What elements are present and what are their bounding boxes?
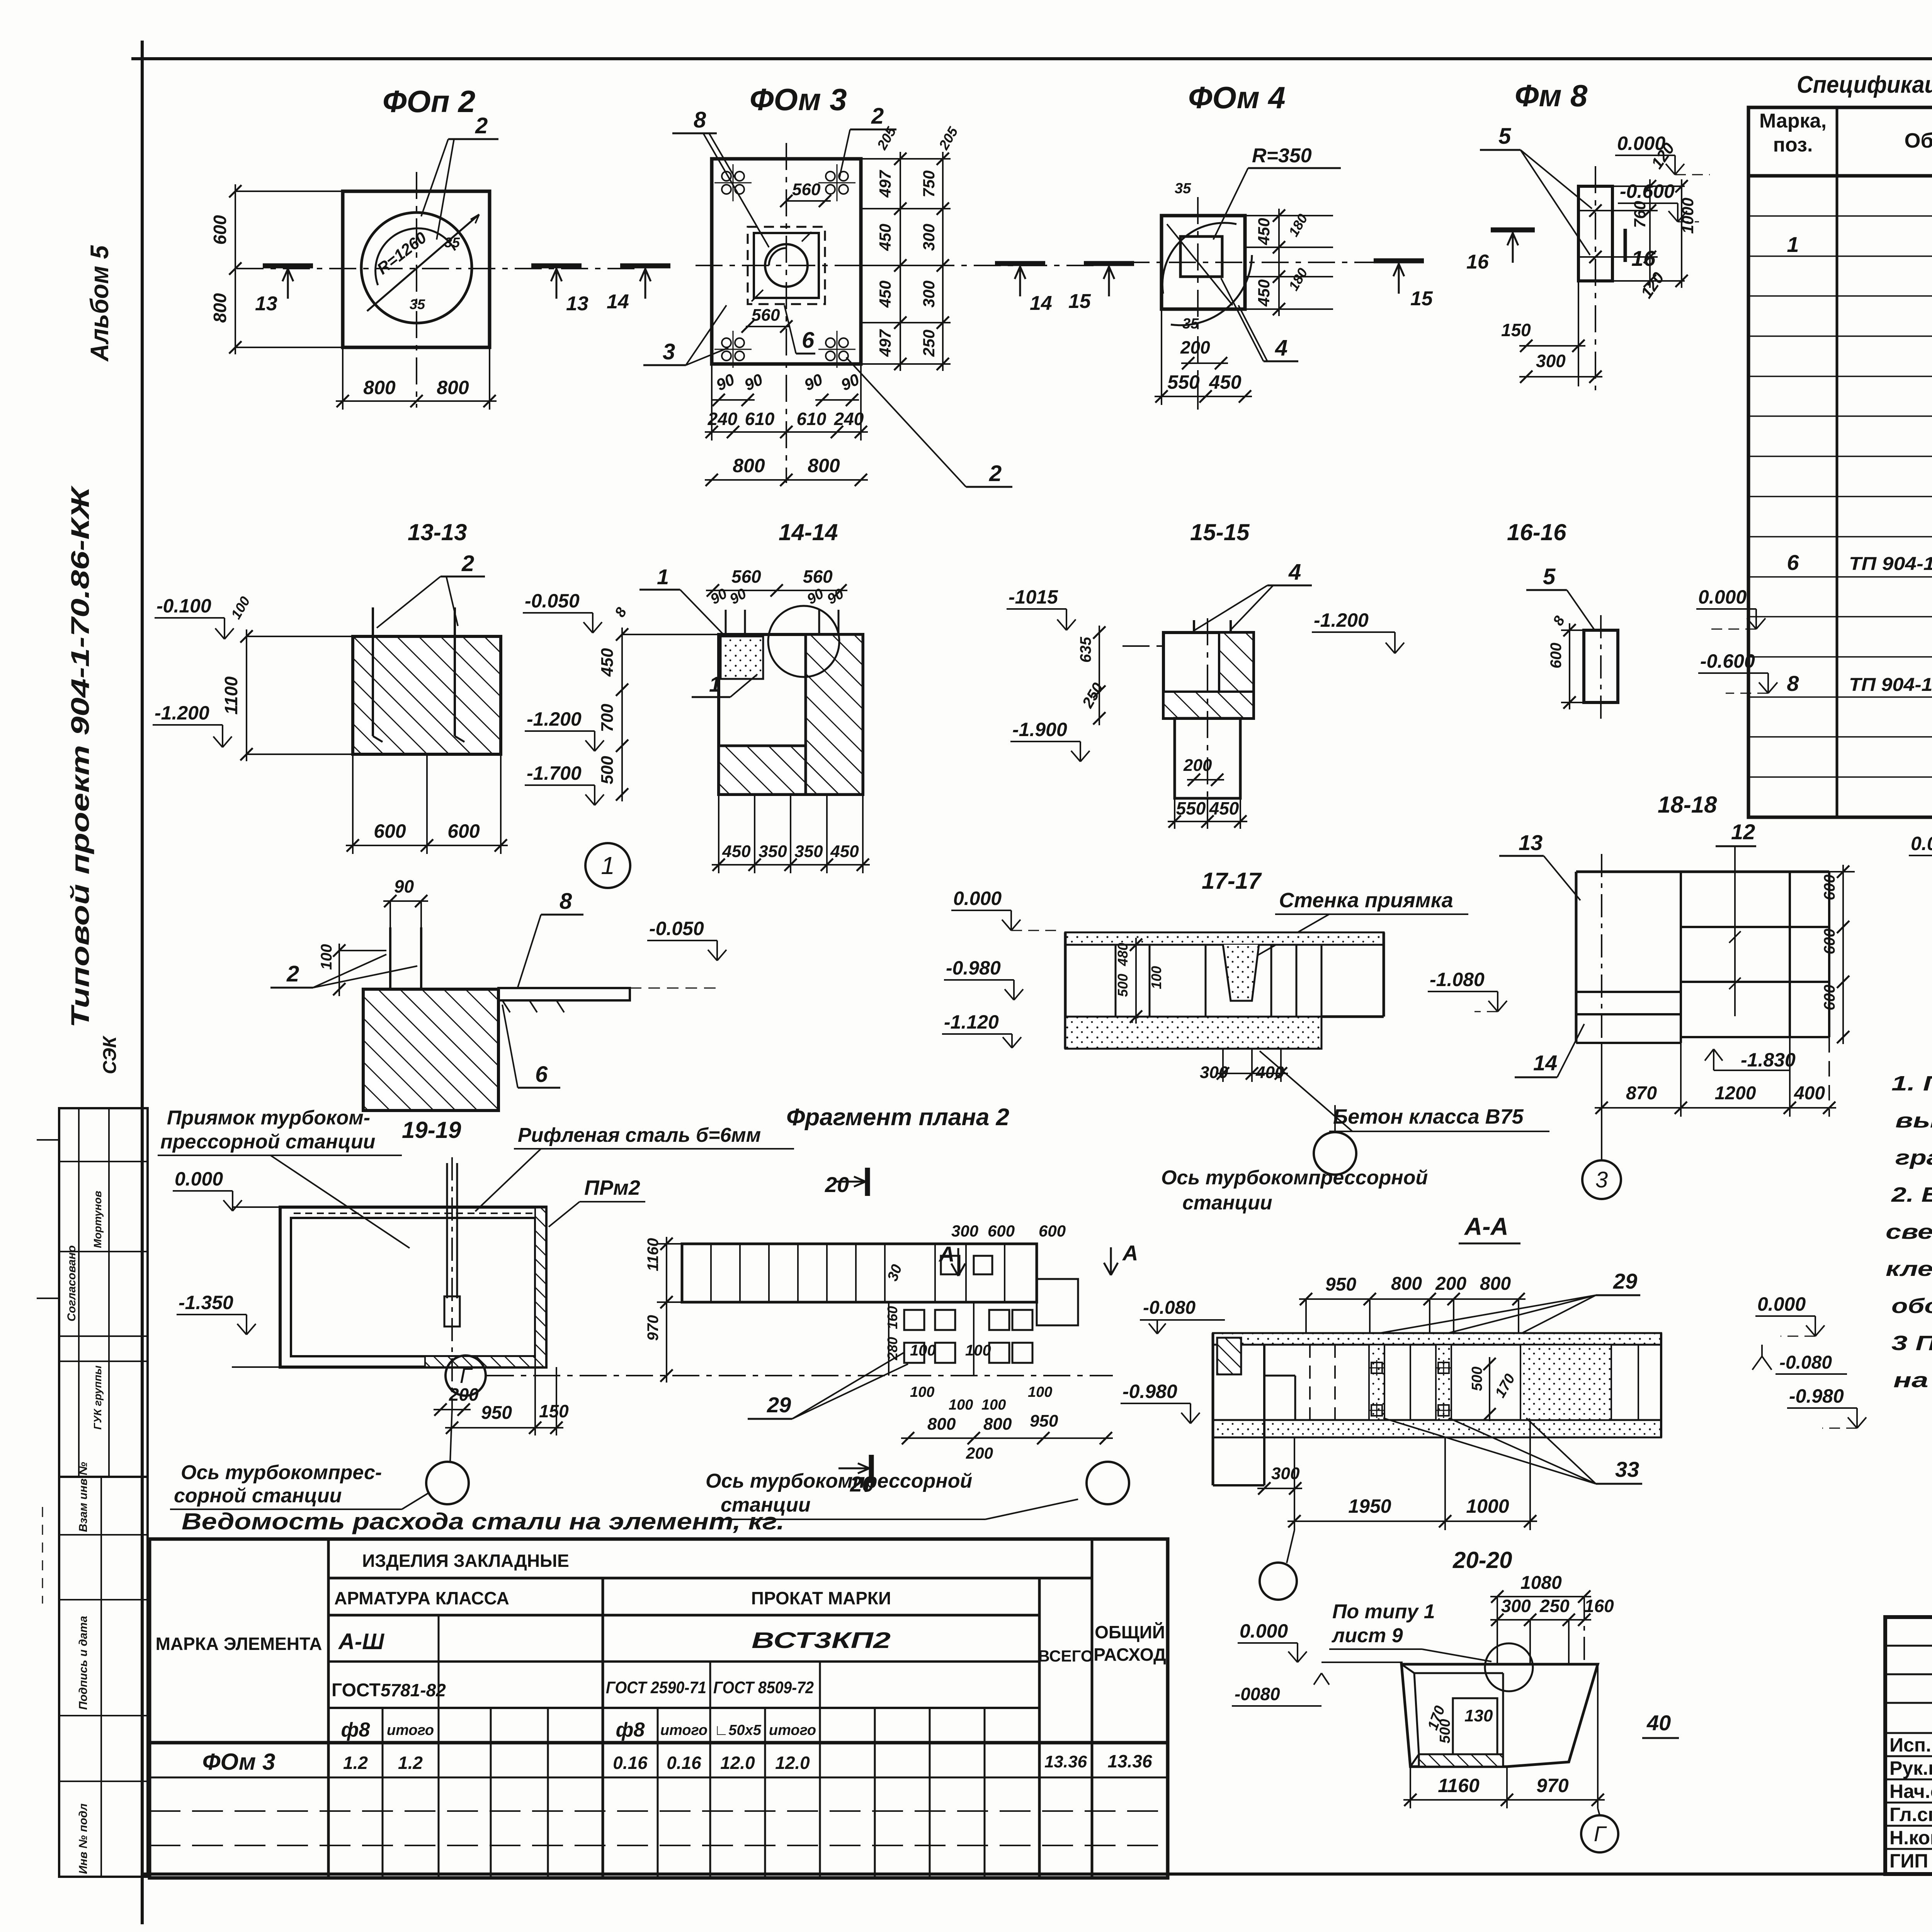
svg-text:Бетон класса В75: Бетон класса В75: [1333, 1105, 1524, 1128]
svg-text:450: 450: [1209, 371, 1242, 393]
section 17-17 inner rotated dims: [1135, 938, 1137, 1024]
svg-text:-0.100: -0.100: [156, 595, 211, 617]
svg-text:Н.конт: Н.конт: [1889, 1827, 1932, 1849]
fragment step right end: [1037, 1279, 1078, 1325]
svg-text:1950: 1950: [1348, 1495, 1391, 1517]
svg-text:800: 800: [808, 455, 840, 476]
svg-text:1160: 1160: [645, 1238, 662, 1271]
specification table grid: [1748, 107, 1932, 817]
svg-text:ГОСТ: ГОСТ: [332, 1680, 381, 1701]
plan FOm3 bolt cluster top-left: [722, 172, 731, 181]
svg-text:-1.200: -1.200: [155, 702, 209, 724]
svg-text:20-20: 20-20: [1452, 1547, 1512, 1573]
svg-text:1.2: 1.2: [343, 1753, 368, 1773]
svg-text:Г: Г: [1594, 1821, 1607, 1846]
svg-text:12: 12: [1731, 820, 1755, 844]
plan FOm4 right dims: [1245, 215, 1333, 216]
section A-A inner verticals: [1309, 1345, 1311, 1420]
svg-text:А-Ш: А-Ш: [338, 1629, 384, 1654]
svg-text:-0.080: -0.080: [1779, 1352, 1832, 1373]
section 14-14 bolts: [725, 610, 727, 665]
svg-text:35: 35: [444, 235, 460, 250]
svg-text:1: 1: [601, 852, 615, 879]
svg-text:400: 400: [1794, 1083, 1825, 1104]
plan FOp2 bottom dimension: [342, 347, 344, 410]
svg-text:16-16: 16-16: [1507, 519, 1566, 545]
svg-text:14-14: 14-14: [779, 519, 838, 545]
section A-A left wall hatch: [1217, 1338, 1241, 1374]
svg-text:4: 4: [1288, 560, 1301, 585]
svg-text:-1.200: -1.200: [1314, 609, 1369, 631]
svg-text:40: 40: [1646, 1711, 1671, 1735]
svg-text:4: 4: [1275, 335, 1287, 361]
fragment axis line Г: [487, 1375, 1113, 1376]
svg-text:16: 16: [1631, 246, 1656, 270]
plan FOp2 circle: [361, 213, 472, 323]
svg-text:А-А: А-А: [1464, 1213, 1509, 1240]
svg-text:5: 5: [1498, 124, 1511, 149]
svg-text:сорной станции: сорной станции: [174, 1485, 342, 1507]
svg-text:0.000: 0.000: [1698, 586, 1747, 608]
section 15-15 bottom dims: [1174, 798, 1175, 829]
svg-text:2: 2: [989, 461, 1002, 486]
svg-text:130: 130: [1464, 1706, 1493, 1725]
plan FOp2 left dimension: [235, 190, 343, 192]
svg-text:СЭК: СЭК: [100, 1035, 120, 1074]
svg-text:20: 20: [825, 1172, 849, 1197]
svg-text:-0.050: -0.050: [525, 590, 580, 612]
svg-text:250: 250: [920, 330, 938, 357]
svg-text:800: 800: [1480, 1274, 1511, 1294]
svg-text:2: 2: [461, 551, 474, 576]
svg-text:-1.120: -1.120: [944, 1011, 999, 1033]
svg-text:АРМАТУРА КЛАССА: АРМАТУРА КЛАССА: [334, 1588, 509, 1608]
svg-text:R=350: R=350: [1252, 145, 1312, 167]
svg-text:ФОм 4: ФОм 4: [1188, 80, 1286, 115]
svg-text:300: 300: [1271, 1464, 1300, 1483]
svg-text:Типовой проект 904-1-70.86: Типовой проект 904-1-70.86-КЖ: [66, 485, 94, 1028]
svg-text:1: 1: [1787, 232, 1799, 257]
approval stamp block (sogласовано): [59, 1108, 148, 1477]
svg-text:497: 497: [876, 170, 894, 198]
plan Fm8 cut mark 16: [1491, 228, 1535, 233]
section 13-13 vertical dim 1100: [246, 629, 247, 761]
svg-text:Согласовано: Согласовано: [65, 1245, 78, 1321]
svg-text:100: 100: [1148, 966, 1164, 989]
svg-text:33: 33: [1615, 1457, 1639, 1481]
svg-text:8: 8: [1787, 671, 1799, 696]
svg-text:500: 500: [598, 756, 617, 784]
svg-text:450: 450: [598, 648, 617, 677]
svg-text:ГОСТ 2590-71: ГОСТ 2590-71: [606, 1678, 706, 1697]
svg-text:350: 350: [759, 842, 787, 861]
svg-text:35: 35: [1175, 180, 1191, 197]
svg-text:2. Болты тип 5 установить: 2. Болты тип 5 установить в готовые фунд…: [1891, 1183, 1932, 1206]
plan FOm3 centerlines: [696, 265, 1097, 266]
svg-text:3: 3: [663, 339, 675, 364]
svg-text:2: 2: [286, 961, 299, 986]
svg-text:3 Привязку фундаментов к: 3 Привязку фундаментов к разбивочным ося…: [1891, 1332, 1932, 1355]
plan FOm3 right dimension columns: [861, 158, 951, 160]
fragment axis balloon right: [1087, 1462, 1129, 1504]
svg-text:По типу 1: По типу 1: [1332, 1600, 1435, 1623]
svg-text:Приямок турбоком-: Приямок турбоком-: [167, 1107, 370, 1129]
svg-text:12.0: 12.0: [775, 1753, 810, 1773]
svg-text:0.000: 0.000: [1911, 833, 1932, 854]
svg-text:500: 500: [1115, 974, 1131, 997]
svg-text:1. Подготовку основания п: 1. Подготовку основания под монолитные ф…: [1891, 1072, 1932, 1095]
svg-text:-0.600: -0.600: [1620, 180, 1675, 202]
svg-text:800: 800: [1391, 1274, 1422, 1294]
axis balloon (19-19): [426, 1462, 469, 1504]
svg-text:13.36: 13.36: [1044, 1752, 1087, 1771]
svg-text:600: 600: [210, 215, 230, 245]
svg-text:600: 600: [988, 1222, 1015, 1240]
svg-text:0.000: 0.000: [1617, 133, 1665, 154]
section A-A bottom dims: [1294, 1437, 1295, 1530]
svg-text:-1.700: -1.700: [527, 762, 582, 784]
svg-text:ф8: ф8: [341, 1719, 370, 1741]
svg-text:450: 450: [1255, 279, 1273, 307]
svg-text:15: 15: [1068, 290, 1091, 313]
svg-text:прессорной станции: прессорной станции: [160, 1131, 375, 1153]
svg-text:ГОСТ 8509-72: ГОСТ 8509-72: [713, 1678, 814, 1697]
axis balloon below 17-17: [1314, 1132, 1356, 1175]
svg-text:450: 450: [722, 842, 751, 861]
svg-text:450: 450: [876, 224, 894, 251]
svg-text:800: 800: [363, 377, 396, 398]
section 14-14 bottom dims: [718, 794, 719, 873]
section A-A slab body: [1213, 1333, 1661, 1345]
svg-text:-0.980: -0.980: [1789, 1385, 1844, 1407]
svg-text:Взам инв №: Взам инв №: [77, 1462, 90, 1532]
svg-text:13: 13: [255, 293, 277, 315]
svg-text:19-19: 19-19: [402, 1117, 461, 1143]
steel consumption table: [150, 1539, 1168, 1878]
plan Fm8 right dims: [1612, 185, 1685, 187]
svg-text:6: 6: [1787, 550, 1799, 575]
svg-text:950: 950: [1030, 1412, 1058, 1430]
svg-text:610: 610: [797, 409, 827, 429]
plan FOp2 centerlines: [236, 268, 641, 269]
svg-text:1080: 1080: [1520, 1573, 1562, 1593]
svg-text:14: 14: [607, 291, 629, 313]
svg-text:635: 635: [1077, 637, 1094, 663]
section cut mark 15 right of FOm4: [1374, 259, 1424, 264]
svg-text:35: 35: [410, 296, 425, 312]
svg-text:500: 500: [1469, 1367, 1485, 1391]
plan 19-19 top steel strip: [294, 1213, 533, 1214]
section 20-20 axis balloon Г: [1598, 1808, 1600, 1815]
svg-text:ГИП: ГИП: [1889, 1850, 1928, 1872]
svg-text:итого: итого: [769, 1722, 816, 1738]
section 13-13 anchor bolts: [372, 607, 374, 736]
node balloon 1: [585, 843, 630, 888]
svg-text:100: 100: [910, 1342, 936, 1359]
svg-text:15: 15: [1410, 287, 1433, 310]
section 15-15 body: [1163, 633, 1253, 718]
section A-A bolts: [1371, 1362, 1382, 1373]
svg-text:800: 800: [437, 377, 469, 398]
svg-text:Обозначение: Обозначение: [1904, 129, 1932, 152]
svg-text:800: 800: [927, 1415, 956, 1434]
svg-text:МАРКА ЭЛЕМЕНТА: МАРКА ЭЛЕМЕНТА: [156, 1634, 322, 1654]
svg-text:300: 300: [951, 1222, 978, 1240]
section 15-15 left dims: [1099, 626, 1100, 725]
svg-text:РАСХОД: РАСХОД: [1094, 1645, 1166, 1665]
svg-text:600: 600: [1821, 929, 1838, 954]
svg-text:600: 600: [1548, 643, 1565, 668]
svg-text:А: А: [938, 1242, 954, 1266]
svg-text:-1.200: -1.200: [527, 708, 582, 730]
svg-text:-0.050: -0.050: [649, 918, 704, 939]
svg-text:300: 300: [920, 281, 938, 308]
svg-text:13: 13: [566, 293, 588, 315]
svg-text:Исп.: Исп.: [1889, 1734, 1931, 1756]
svg-text:0.000: 0.000: [1757, 1293, 1806, 1315]
svg-text:450: 450: [876, 281, 894, 308]
title block (stamp): [1885, 1617, 1932, 1874]
svg-text:5: 5: [1543, 564, 1556, 589]
svg-text:700: 700: [598, 704, 617, 732]
svg-text:оборудования фундаментными: оборудования фундаментными болтами СН 47…: [1891, 1294, 1932, 1318]
section 17-17 inner walls: [1115, 945, 1117, 1017]
svg-text:Ось турбокомпрессорной: Ось турбокомпрессорной: [1161, 1167, 1428, 1189]
svg-text:Подпись и дата: Подпись и дата: [77, 1616, 90, 1710]
svg-text:100: 100: [1028, 1384, 1052, 1400]
svg-text:выполнять путем втрамбован: выполнять путем втрамбования в грунт щеб…: [1895, 1109, 1932, 1132]
svg-text:15-15: 15-15: [1190, 519, 1250, 545]
standard inventory stamp block: [59, 1477, 148, 1877]
svg-text:480: 480: [1115, 943, 1131, 966]
plan FOm3 bottom dims 240 610 610 240: [711, 364, 713, 440]
svg-text:200: 200: [966, 1444, 993, 1462]
svg-text:560: 560: [803, 566, 833, 587]
plan FOm3 bottom dims 800 800: [705, 479, 868, 481]
svg-text:1: 1: [709, 672, 721, 696]
svg-text:Рифленая сталь б=6мм: Рифленая сталь б=6мм: [518, 1124, 761, 1146]
svg-text:сверленные скважины, закре: сверленные скважины, закрепив с помощью …: [1886, 1220, 1932, 1243]
svg-text:12.0: 12.0: [720, 1753, 755, 1773]
svg-text:0.16: 0.16: [667, 1753, 701, 1773]
svg-text:13-13: 13-13: [408, 519, 467, 545]
svg-text:Спецификация к фундаментам: Спецификация к фундаментам под оборудова…: [1797, 71, 1932, 98]
svg-text:250: 250: [1539, 1596, 1570, 1616]
svg-text:800: 800: [733, 455, 765, 476]
section 20-20 pit body: [1401, 1664, 1598, 1767]
plan FOm4 centerlines: [1122, 262, 1406, 263]
svg-text:поз.: поз.: [1773, 134, 1813, 156]
plan FOm3 bottom dims 90: [712, 399, 755, 401]
node 1 detail embedded plate: [498, 988, 630, 1000]
section 20-20 detail circle: [1485, 1643, 1533, 1691]
plan FOm4 bottom dims: [1161, 309, 1162, 405]
svg-text:Г: Г: [460, 1363, 473, 1388]
node 1 detail vertical dim 100: [338, 944, 340, 996]
section cut marks 13 14 right of FOp2: [531, 264, 582, 269]
plan FOm4 body: [1162, 216, 1245, 309]
svg-text:ФОп 2: ФОп 2: [383, 84, 475, 119]
plan FOm3 bolt cluster bottom-right: [826, 338, 835, 347]
section 17-17 bottom dims 300 400: [1222, 1049, 1224, 1082]
svg-text:870: 870: [1626, 1083, 1657, 1104]
svg-text:35: 35: [1182, 316, 1199, 332]
plan FOm3 bolt cluster bottom-left: [722, 338, 731, 347]
plan 19-19 central channel: [451, 1157, 453, 1408]
svg-text:ПРОКАТ МАРКИ: ПРОКАТ МАРКИ: [751, 1588, 891, 1608]
svg-text:100: 100: [318, 944, 335, 970]
plan FOm3 bolt cluster top-right: [826, 172, 835, 181]
svg-text:760: 760: [1631, 201, 1649, 228]
svg-text:Стенка приямка: Стенка приямка: [1279, 889, 1453, 912]
svg-text:ТП 904-1-70.86 КЖИ-МН7: ТП 904-1-70.86 КЖИ-МН7: [1849, 554, 1932, 574]
svg-text:Фрагмент плана 2: Фрагмент плана 2: [786, 1104, 1009, 1131]
section 17-17 slab body: [1065, 932, 1384, 945]
section 17-17 pit notch: [1223, 945, 1259, 1001]
svg-text:Ось турбокомпрессорной: Ось турбокомпрессорной: [706, 1470, 972, 1492]
svg-text:600: 600: [1821, 985, 1838, 1010]
svg-text:280: 280: [884, 1337, 900, 1361]
svg-text:300: 300: [1200, 1063, 1228, 1082]
svg-text:-1.830: -1.830: [1741, 1049, 1796, 1071]
svg-text:0.000: 0.000: [1240, 1620, 1288, 1642]
svg-text:14: 14: [1030, 292, 1052, 315]
svg-text:Марка,: Марка,: [1759, 110, 1827, 132]
svg-text:1000: 1000: [1679, 198, 1697, 234]
svg-text:560: 560: [731, 566, 761, 587]
section 18-18 bottom dims: [1601, 1043, 1602, 1117]
svg-text:Альбом 5: Альбом 5: [85, 245, 114, 362]
svg-text:ГУК группы: ГУК группы: [92, 1366, 104, 1430]
plan FOp2 outer square: [343, 191, 490, 347]
svg-text:ТП 904-1-70 86-КЖИ- МС3: ТП 904-1-70 86-КЖИ- МС3: [1849, 675, 1932, 695]
svg-text:Гл.спе: Гл.спе: [1889, 1804, 1932, 1825]
svg-text:Нач.от: Нач.от: [1889, 1781, 1932, 1802]
svg-text:100: 100: [949, 1397, 973, 1413]
svg-text:гравия крупностью 40-60 м: гравия крупностью 40-60 мм.: [1895, 1146, 1932, 1169]
section 13-13 bottom dims: [352, 754, 354, 854]
svg-text:клея согласно инструкции: клея согласно инструкции по креплению те…: [1886, 1257, 1932, 1281]
svg-text:300: 300: [920, 224, 938, 251]
svg-text:90: 90: [394, 876, 414, 896]
svg-text:970: 970: [1536, 1775, 1569, 1796]
section 18-18 body grid: [1576, 871, 1829, 873]
svg-text:400: 400: [1255, 1063, 1284, 1082]
section cut marks 14 15 right of FOm3: [995, 261, 1045, 266]
svg-text:560: 560: [752, 306, 780, 325]
svg-text:станции: станции: [1182, 1192, 1272, 1214]
section 13-13 hatched block: [353, 636, 501, 754]
plan FOm3 embedded plate MN6: [748, 227, 825, 304]
fragment strip body: [682, 1244, 1037, 1302]
svg-text:450: 450: [1209, 798, 1239, 818]
node 1 detail bolts: [389, 927, 391, 1059]
svg-text:800: 800: [983, 1415, 1012, 1434]
svg-text:500: 500: [1437, 1719, 1453, 1743]
svg-text:100: 100: [910, 1384, 934, 1400]
svg-text:350: 350: [794, 842, 823, 861]
svg-text:-1.080: -1.080: [1430, 969, 1485, 990]
section 18-18 right dims 600x3: [1829, 871, 1855, 872]
svg-text:итого: итого: [660, 1722, 707, 1738]
svg-text:750: 750: [920, 170, 938, 197]
svg-text:-1015: -1015: [1009, 586, 1058, 608]
section cut marks 13 left of FOp2: [263, 264, 313, 269]
svg-text:0.000: 0.000: [953, 888, 1002, 909]
svg-text:итого: итого: [387, 1722, 434, 1738]
svg-text:2: 2: [475, 113, 488, 138]
svg-text:240: 240: [707, 409, 738, 429]
svg-text:16: 16: [1466, 251, 1489, 273]
svg-text:ФОм 3: ФОм 3: [202, 1749, 276, 1775]
plan Fm8 body: [1578, 186, 1612, 281]
svg-text:497: 497: [876, 329, 894, 357]
svg-text:1: 1: [657, 565, 669, 589]
svg-text:Рук.гр: Рук.гр: [1889, 1757, 1932, 1779]
svg-text:2: 2: [871, 104, 884, 129]
svg-text:160: 160: [1584, 1596, 1614, 1616]
svg-text:ФОм 3: ФОм 3: [750, 82, 847, 117]
svg-text:950: 950: [1325, 1274, 1356, 1295]
svg-text:Ведомость расхода стали: Ведомость расхода стали на элемент, кг.: [182, 1509, 784, 1534]
svg-text:3: 3: [1595, 1167, 1608, 1192]
svg-text:0.000: 0.000: [175, 1168, 223, 1190]
drawing frame border: [141, 41, 144, 1924]
svg-text:∟50х5: ∟50х5: [714, 1722, 762, 1738]
svg-text:240: 240: [834, 409, 864, 429]
svg-text:1200: 1200: [1715, 1083, 1756, 1104]
svg-text:-0.080: -0.080: [1143, 1298, 1196, 1318]
svg-text:550: 550: [1176, 798, 1206, 818]
svg-text:ф8: ф8: [616, 1719, 645, 1741]
svg-text:1100: 1100: [221, 676, 241, 714]
svg-text:29: 29: [1613, 1269, 1637, 1293]
svg-text:на листе 2.: на листе 2.: [1893, 1369, 1932, 1392]
svg-text:600: 600: [1821, 874, 1838, 900]
node 1 detail hatched block: [363, 989, 498, 1111]
svg-text:450: 450: [1255, 218, 1273, 245]
section 16-16 body: [1584, 630, 1618, 702]
plan FOm3 outer rect: [712, 159, 861, 364]
svg-text:1000: 1000: [1466, 1495, 1509, 1517]
svg-text:800: 800: [210, 293, 230, 323]
svg-text:150: 150: [539, 1401, 569, 1421]
svg-text:Ось турбокомпрес-: Ось турбокомпрес-: [181, 1461, 382, 1484]
svg-text:300: 300: [1501, 1596, 1531, 1616]
svg-text:100: 100: [981, 1397, 1006, 1413]
svg-text:Фм 8: Фм 8: [1515, 78, 1588, 113]
svg-text:560: 560: [792, 180, 821, 199]
svg-text:100: 100: [965, 1342, 991, 1359]
svg-text:13.36: 13.36: [1107, 1751, 1152, 1771]
svg-text:0.16: 0.16: [613, 1753, 648, 1773]
section 14-14 left dim: [621, 628, 623, 801]
fragment bolt boxes below: [904, 1310, 924, 1330]
svg-text:1.2: 1.2: [398, 1753, 423, 1773]
svg-text:600: 600: [447, 820, 480, 842]
svg-text:970: 970: [645, 1315, 662, 1341]
svg-text:13: 13: [1519, 830, 1543, 855]
svg-text:150: 150: [1501, 320, 1531, 340]
svg-text:-0.980: -0.980: [946, 957, 1001, 979]
svg-text:А: А: [1122, 1241, 1138, 1265]
svg-text:200: 200: [1435, 1274, 1466, 1294]
svg-text:160: 160: [884, 1306, 900, 1329]
svg-text:-0.980: -0.980: [1122, 1381, 1177, 1402]
svg-text:29: 29: [767, 1393, 791, 1417]
svg-text:14: 14: [1533, 1051, 1557, 1075]
svg-text:ВСТ3КП2: ВСТ3КП2: [752, 1628, 891, 1653]
